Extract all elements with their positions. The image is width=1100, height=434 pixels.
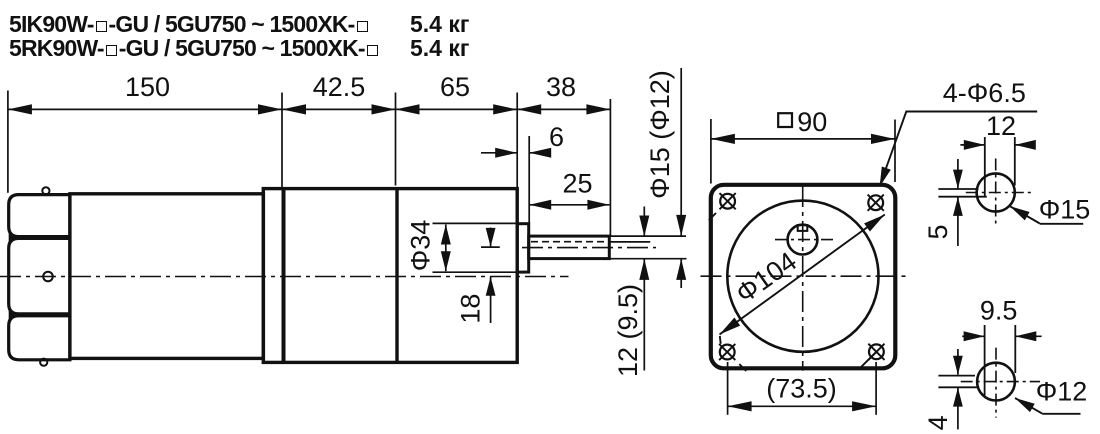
output boss xyxy=(517,224,529,272)
label Phi12 with leader xyxy=(1015,377,1087,414)
svg-text:12: 12 xyxy=(986,111,1016,141)
bolt hole bottom-left xyxy=(719,344,735,360)
svg-text:90: 90 xyxy=(797,107,827,137)
rear cover center screw xyxy=(43,272,53,282)
flange horizontal centerline xyxy=(701,275,907,277)
dimension 12 across flat xyxy=(960,111,1035,185)
svg-text:Φ15: Φ15 xyxy=(1039,195,1091,225)
rear cover bottom screw xyxy=(40,359,47,366)
dimension 6 (boss width) xyxy=(481,122,564,224)
housing joint line A xyxy=(282,189,286,363)
svg-text:Φ15 (Φ12): Φ15 (Φ12) xyxy=(645,70,675,199)
svg-text:(73.5): (73.5) xyxy=(766,374,837,404)
wire xyxy=(0,276,569,278)
svg-text:6: 6 xyxy=(549,122,564,152)
shaft section Phi12 horizontal centerline xyxy=(961,381,1040,383)
dimension (73.5) bolt spacing xyxy=(728,362,877,415)
housing joint line B xyxy=(395,188,398,362)
bolt hole slash bottom-right xyxy=(859,352,877,370)
dimension 65 xyxy=(396,72,518,223)
bolt hole top-right xyxy=(868,195,884,211)
shaft section Phi15 circle xyxy=(977,173,1015,211)
dimension 9.5 across flat xyxy=(962,296,1041,374)
shaft section Phi12 circle xyxy=(977,363,1015,401)
flange face circle xyxy=(727,201,878,352)
svg-text:4-Φ6.5: 4-Φ6.5 xyxy=(943,78,1026,108)
flange outline square 90x90 xyxy=(711,185,896,368)
svg-text:65: 65 xyxy=(440,72,470,102)
dimension Phi15 (Phi12) shaft diameter xyxy=(645,68,686,288)
svg-text:4: 4 xyxy=(923,415,953,430)
dimension 150 xyxy=(8,72,282,193)
shaft section Phi15 horizontal centerline xyxy=(966,192,1032,194)
dimension 42.5 xyxy=(282,72,396,186)
dimension 5 flat depth xyxy=(923,159,963,246)
flat band lines Phi12 xyxy=(938,376,979,388)
flange vertical centerline xyxy=(802,186,804,371)
svg-text:9.5: 9.5 xyxy=(980,296,1018,326)
svg-text:Φ34: Φ34 xyxy=(406,220,436,272)
shaft section Phi15 flat chord xyxy=(984,137,986,197)
bolt hole slash bottom-left xyxy=(739,364,746,371)
dimension square-90 xyxy=(711,107,895,184)
shaft hole centerline xyxy=(775,239,835,241)
dimension 38 xyxy=(517,72,610,236)
svg-text:38: 38 xyxy=(546,72,576,102)
bolt hole slash top-left xyxy=(709,213,716,220)
rear cover top screw xyxy=(42,187,49,194)
shaft section Phi12 vertical centerline xyxy=(995,348,997,418)
output shaft centerline xyxy=(522,247,656,249)
shaft hole keyway notch xyxy=(798,225,808,231)
svg-text:Φ12: Φ12 xyxy=(1036,377,1088,407)
bolt hole bottom-right xyxy=(868,344,884,360)
shaft flat edge extension xyxy=(609,241,650,243)
svg-text:5: 5 xyxy=(923,224,953,239)
dimension Phi34 (boss diameter) xyxy=(406,220,518,272)
middle and gear housing outline xyxy=(263,189,517,363)
flat band lines Phi15 xyxy=(938,189,986,197)
title line 2 xyxy=(9,35,380,62)
shaft section Phi15 vertical centerline xyxy=(995,159,997,224)
svg-text:12 (9.5): 12 (9.5) xyxy=(613,284,643,377)
title line 2 weight xyxy=(410,35,469,62)
title line 1 xyxy=(9,11,370,38)
shaft hole xyxy=(788,225,818,255)
output shaft xyxy=(529,236,610,259)
dimension Phi104 bolt circle xyxy=(720,215,885,344)
dimension 25 (shaft length) xyxy=(529,169,609,210)
label 4-Phi6.5 with leader xyxy=(880,78,1038,187)
dimension 4 flat depth xyxy=(923,349,963,430)
dimension 12 (9.5) flat height xyxy=(613,207,650,378)
bolt hole top-left xyxy=(720,193,736,209)
title line 1 weight xyxy=(410,11,469,38)
svg-text:150: 150 xyxy=(125,72,170,102)
shaft flat hidden line xyxy=(531,241,608,243)
svg-text:25: 25 xyxy=(562,169,592,199)
shaft diameter extension lines xyxy=(609,236,686,259)
svg-text:18: 18 xyxy=(456,294,486,324)
dimension 18 (shaft offset) xyxy=(456,228,500,324)
motor body (150 section) xyxy=(70,194,264,359)
svg-text:42.5: 42.5 xyxy=(313,72,366,102)
label Phi15 with leader xyxy=(1010,195,1090,225)
motor rear cover (3 rounded sections) xyxy=(9,195,70,360)
shaft section Phi12 flat chord xyxy=(984,325,986,397)
